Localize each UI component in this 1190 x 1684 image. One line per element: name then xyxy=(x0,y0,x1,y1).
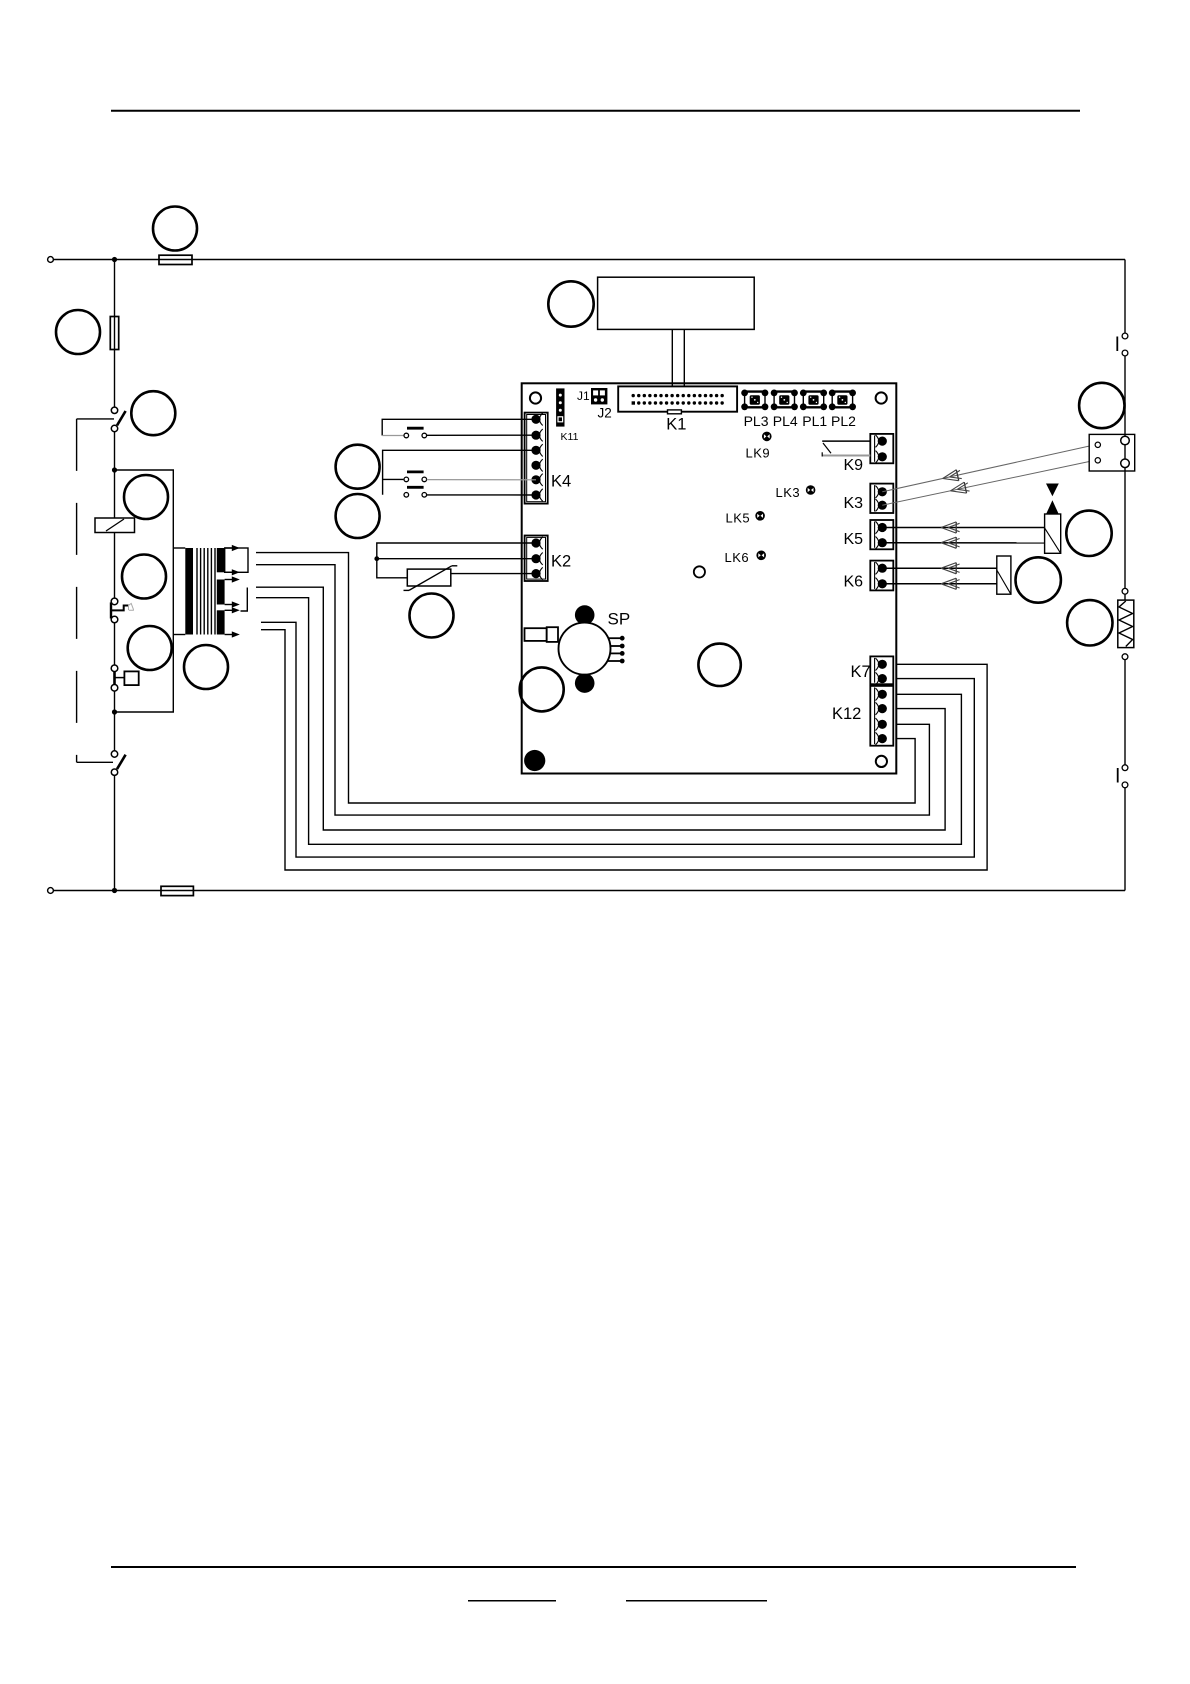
wire: K9 pigtail lower (shield) xyxy=(822,452,870,456)
tact switch PL1 xyxy=(800,390,827,411)
callout circle 3 xyxy=(131,391,175,435)
buzzer SP pins xyxy=(607,638,620,661)
terminal: supply N xyxy=(48,888,54,894)
connector K12 xyxy=(870,686,893,746)
solder link LK6 xyxy=(756,551,766,561)
wire: pressure switch to box bottom xyxy=(114,691,116,751)
tact switch PL4 xyxy=(771,390,798,411)
svg-text:K12: K12 xyxy=(832,705,861,723)
fuse F1 (top rail) xyxy=(159,255,192,264)
wire: right rail top segment xyxy=(1124,260,1126,334)
wire: K5 pin1 to valve coil xyxy=(882,527,1044,529)
secondary plug housing 1 xyxy=(225,548,248,572)
callout circle 16 xyxy=(1015,557,1060,602)
node: box bottom-left junction xyxy=(112,709,117,714)
fuse F3 (bottom rail) xyxy=(161,886,193,895)
wire: SW-A to K4 pin2 xyxy=(427,434,536,436)
wire: K9 pigtail upper xyxy=(822,440,870,442)
wire: transformer secondary to K12 pin4 xyxy=(256,553,915,803)
callout circle 6 xyxy=(128,626,172,670)
buzzer SP bottom electrode xyxy=(575,673,595,693)
wire: transformer secondary to K7 pin1 xyxy=(261,630,987,870)
svg-text:J2: J2 xyxy=(598,406,612,421)
callout circle 8 xyxy=(548,281,593,326)
footer blank field underline 2 xyxy=(626,1600,767,1602)
solder link LK3 xyxy=(806,485,816,495)
jumper block J1 xyxy=(591,388,607,404)
PCB mounting hole bottom-right xyxy=(876,756,887,767)
PCB mounting hole top-left xyxy=(530,392,541,403)
svg-text:LK3: LK3 xyxy=(776,485,801,500)
page footer rule xyxy=(111,1566,1076,1568)
selector switch SW-C xyxy=(404,487,427,497)
wire: S1b down to bottom rail xyxy=(114,775,116,890)
connector K5 xyxy=(870,520,893,549)
wire: K6 pin1 to pump coil xyxy=(882,567,997,569)
svg-text:LK9: LK9 xyxy=(746,446,771,461)
valve inlet symbol (bowtie) xyxy=(1046,484,1059,515)
pump / motor coil xyxy=(997,556,1011,594)
svg-text:K3: K3 xyxy=(844,495,864,512)
faston plug K5 pin2 xyxy=(941,537,960,548)
selector switch SW-B xyxy=(404,472,427,482)
fuse F2 (left branch) xyxy=(110,317,118,350)
page header rule xyxy=(111,110,1080,112)
callout circle 4 xyxy=(124,475,168,519)
callout circle 10 xyxy=(520,667,564,711)
svg-text:J1: J1 xyxy=(577,389,590,403)
callout circle 5 xyxy=(122,555,166,599)
terminal above heater xyxy=(1122,588,1128,594)
connector K3 xyxy=(870,484,893,513)
callout circle 1 xyxy=(153,207,197,251)
callout circle 17 xyxy=(1067,600,1112,645)
wire: transformer secondary to K12 pin2 xyxy=(256,587,945,830)
node: junction top rail / left branch xyxy=(112,257,117,262)
wire: transformer secondary to K12 pin3 xyxy=(256,565,929,815)
wire: stub to SW-B xyxy=(383,478,404,480)
wire: bottom supply rail N xyxy=(53,890,1125,892)
wire: transformer secondary to K12 pin1 xyxy=(256,598,961,845)
wire: switch S1a to appliance box xyxy=(114,432,116,518)
svg-text:LK6: LK6 xyxy=(725,550,750,565)
connector K7 xyxy=(870,656,893,684)
connector K6 xyxy=(870,561,893,591)
wire: K9 pigtail fold xyxy=(823,443,831,453)
transformer secondary winding S1 xyxy=(217,548,225,572)
transformer T1 primary winding bar xyxy=(185,548,193,635)
wire: SW-B to K4 pin5 (grey) xyxy=(427,479,536,481)
thermostat assembly box xyxy=(1089,434,1135,471)
svg-text:PL3: PL3 xyxy=(744,413,769,429)
switch S1a (mains double-pole, upper) xyxy=(111,407,125,432)
display module box xyxy=(598,277,755,329)
svg-text:PL2: PL2 xyxy=(831,413,856,429)
wire: thermal cutout to pressure switch xyxy=(114,623,116,665)
heater element R (zigzag) xyxy=(1118,594,1134,647)
svg-text:K11: K11 xyxy=(561,431,579,443)
varistor / heater element RV xyxy=(404,566,458,591)
faston plug K3 lead2 xyxy=(949,481,970,496)
svg-text:K7: K7 xyxy=(851,663,871,681)
wire: K3 pin2 to thermostat (twin lead) xyxy=(882,460,1095,505)
solder link LK5 xyxy=(755,511,765,521)
thermal cutout TH xyxy=(111,598,133,623)
appliance enclosure outline xyxy=(115,470,174,712)
svg-text:LK5: LK5 xyxy=(726,510,751,525)
solder link LK9 xyxy=(762,432,772,442)
transformer core xyxy=(197,548,215,635)
buzzer SP body xyxy=(559,623,611,675)
terminal below heater xyxy=(1122,654,1128,660)
node: K2 branch junction xyxy=(374,556,379,561)
wire: thermostat to heater xyxy=(1124,467,1126,588)
connector K1 (ribbon header) xyxy=(618,386,737,413)
wire: left branch down to fuse xyxy=(114,260,116,407)
wire: S2 to thermostat box xyxy=(1124,356,1126,437)
switch S2 (on/off) xyxy=(1117,333,1128,356)
footer blank field underline 1 xyxy=(468,1600,556,1602)
wire: K2 pin2 branch xyxy=(377,558,536,560)
thermostat switch contacts xyxy=(1121,434,1130,467)
thermostat sense terminals xyxy=(1095,442,1100,463)
svg-text:K6: K6 xyxy=(844,574,864,591)
tact switch PL2 xyxy=(829,390,856,411)
wire: varistor to K2 pin3 xyxy=(451,573,536,575)
interference suppressor / relay coil xyxy=(95,518,135,533)
wire: K4 pin1 to door switch xyxy=(382,419,536,435)
svg-text:K1: K1 xyxy=(666,416,686,434)
wire: K5 pin2 to valve coil xyxy=(882,542,1044,544)
valve solenoid coil xyxy=(1045,514,1061,553)
callout circle 7 xyxy=(184,645,228,689)
transformer primary connection wires xyxy=(173,548,185,635)
wire: heater to S3 xyxy=(1124,660,1126,765)
buzzer SP top electrode xyxy=(575,605,595,625)
svg-text:K2: K2 xyxy=(551,553,571,571)
svg-text:PL1: PL1 xyxy=(802,413,827,429)
pressure switch PS xyxy=(111,665,139,691)
PCB via hole xyxy=(694,566,705,577)
svg-text:K9: K9 xyxy=(844,457,864,474)
svg-text:SP: SP xyxy=(608,610,631,629)
connector K4 xyxy=(525,413,548,504)
wire: transformer secondary to K7 pin2 xyxy=(261,622,974,857)
faston plug K6 pin1 xyxy=(941,563,960,574)
PCB mounting pad bottom-left (filled) xyxy=(524,750,545,771)
tact switch PL3 xyxy=(741,390,768,411)
svg-text:K5: K5 xyxy=(844,531,864,548)
svg-text:PL4: PL4 xyxy=(773,413,798,429)
callout circle 2 xyxy=(56,310,100,354)
crystal / resonator beside SP xyxy=(525,627,559,642)
mechanical link of double-pole switch xyxy=(77,419,114,762)
connector K2 xyxy=(525,536,548,582)
PCB mounting hole top-right xyxy=(876,392,887,403)
wire: SW-C to K4 pin6 xyxy=(427,494,536,496)
callout circle 14 xyxy=(1079,383,1124,428)
wire: K4 pin3 to switch common xyxy=(383,450,536,495)
callout circle 11 xyxy=(336,445,380,489)
secondary plug housing 2 xyxy=(241,588,248,612)
callout circle 12 xyxy=(336,494,380,538)
switch S3 (heater) xyxy=(1118,765,1128,788)
door switch SW-A xyxy=(404,428,427,438)
transformer secondary winding S3 xyxy=(217,610,225,634)
faston plug K3 lead1 xyxy=(941,469,962,484)
wire: top supply rail L xyxy=(53,259,1125,261)
PCB main control board outline xyxy=(522,383,897,773)
wire: stub to door switch (grey) xyxy=(382,435,403,437)
switch S1b (mains double-pole, lower) xyxy=(111,751,125,776)
terminal: supply L xyxy=(48,257,54,263)
connector K11 xyxy=(556,388,564,426)
faston plug K5 pin1 xyxy=(941,522,960,533)
wire: K2 pin1 branch xyxy=(377,543,536,578)
wire: S3 down to bottom rail xyxy=(1124,788,1126,891)
callout circle 15 xyxy=(1066,511,1111,556)
wire: K3 pin1 to thermostat (twin lead) xyxy=(882,445,1095,492)
callout circle 9 xyxy=(698,644,740,686)
faston plug K6 pin2 xyxy=(941,578,960,589)
node: junction bottom rail xyxy=(112,888,117,893)
wire: K6 pin2 to pump coil xyxy=(882,583,997,585)
svg-text:K4: K4 xyxy=(551,473,571,491)
connector K9 xyxy=(870,434,893,463)
ribbon cable to display xyxy=(672,329,684,386)
transformer secondary terminal arrows xyxy=(225,545,240,638)
node: box top-left junction xyxy=(112,467,117,472)
transformer secondary winding S2 xyxy=(217,580,225,605)
callout circle 13 xyxy=(410,594,454,638)
wire: relay to thermal cutout xyxy=(114,533,116,599)
